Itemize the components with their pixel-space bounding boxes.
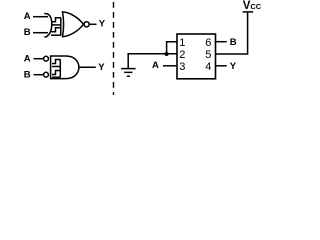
AND gate body bbox=[51, 56, 79, 79]
svg-text:5: 5 bbox=[205, 49, 211, 61]
svg-text:4: 4 bbox=[205, 61, 211, 73]
hysteresis underline input A bbox=[51, 24, 61, 26]
wire pin2 to ground bbox=[128, 54, 177, 68]
svg-text:B: B bbox=[24, 27, 31, 38]
svg-text:VCC: VCC bbox=[243, 0, 262, 12]
svg-text:3: 3 bbox=[179, 61, 185, 73]
IC U1 package outline bbox=[177, 34, 216, 79]
svg-text:B: B bbox=[24, 69, 31, 80]
ground bbox=[121, 69, 135, 77]
wire A to bubble bbox=[34, 58, 44, 60]
svg-text:Y: Y bbox=[99, 19, 106, 30]
svg-text:Y: Y bbox=[230, 61, 237, 72]
svg-text:B: B bbox=[230, 37, 237, 48]
hysteresis vertical bar (top gate) bbox=[60, 18, 62, 35]
wire pin1 to pin2 tie bbox=[167, 42, 177, 54]
XNOR gate top edge bbox=[62, 12, 84, 24]
Vcc power symbol bar bbox=[243, 11, 254, 13]
wire Y output top bbox=[89, 23, 96, 25]
wire pin 6 to B bbox=[216, 41, 227, 43]
hysteresis underline input B (bottom) bbox=[52, 76, 61, 78]
svg-text:1: 1 bbox=[179, 37, 185, 49]
svg-text:A: A bbox=[152, 60, 159, 71]
svg-text:2: 2 bbox=[179, 49, 185, 61]
hysteresis symbol input B (bottom step) bbox=[52, 71, 61, 75]
output bubble U1a bbox=[84, 22, 89, 27]
wire B to top gate bbox=[33, 32, 48, 34]
wire Y output bottom bbox=[79, 66, 96, 68]
svg-text:Y: Y bbox=[98, 62, 105, 73]
input bubble B bbox=[44, 72, 49, 77]
wire A to top gate bbox=[33, 16, 48, 18]
wire A to pin 3 bbox=[163, 65, 177, 67]
hysteresis symbol input B (step) bbox=[52, 28, 62, 32]
XOR input arc bbox=[44, 14, 52, 37]
hysteresis symbol input A (step) bbox=[52, 18, 62, 22]
wire pin 5 to Vcc bbox=[216, 12, 248, 54]
wire B to bubble bbox=[34, 74, 44, 76]
hysteresis underline input A (bottom) bbox=[52, 66, 61, 68]
junction dot pins 1-2 bbox=[165, 52, 169, 56]
hysteresis symbol input A (bottom step) bbox=[52, 60, 61, 64]
XNOR gate back arc bbox=[63, 12, 64, 37]
hysteresis underline input B bbox=[51, 34, 61, 36]
hysteresis vertical bar (bottom gate) bbox=[59, 60, 61, 78]
dashed separator line bbox=[113, 2, 115, 95]
svg-text:A: A bbox=[24, 53, 31, 64]
wire pin 4 to Y bbox=[216, 65, 227, 67]
input bubble A bbox=[44, 56, 49, 61]
svg-text:A: A bbox=[24, 11, 31, 22]
gate U1a XNOR with schmitt inputs bbox=[24, 11, 106, 38]
gate U1b NOR (AND with inverted inputs, schmitt) bbox=[24, 53, 106, 80]
svg-text:6: 6 bbox=[205, 37, 211, 49]
XNOR gate bottom edge bbox=[62, 24, 84, 37]
